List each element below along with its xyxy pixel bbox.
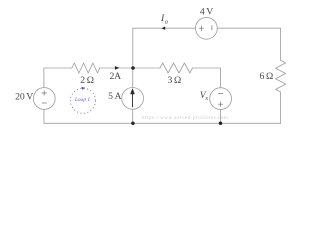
svg-text:Loop 1: Loop 1 bbox=[74, 98, 90, 103]
node A: junction dot at center node bbox=[131, 66, 135, 70]
wire: left vertical from bottom wire to 20V source minus terminal bbox=[43, 109, 45, 123]
wire: center node to 3-ohm resistor bbox=[133, 67, 160, 69]
svg-text:5 A: 5 A bbox=[108, 91, 121, 102]
svg-text:Ia: Ia bbox=[160, 13, 168, 26]
wire: bottom wire bbox=[44, 122, 281, 124]
wire: center node down to 5A source top terminal bbox=[132, 68, 134, 88]
wire: top wire from corner to 4V source left terminal bbox=[133, 27, 196, 29]
wire: 3-ohm resistor to corner above Vx source bbox=[193, 67, 221, 69]
loop marker Loop 1 dashed circle bbox=[70, 88, 95, 113]
polarity minus of Vx source (top) bbox=[218, 92, 223, 94]
wire: 5A source bottom terminal to bottom wire bbox=[132, 109, 134, 123]
current source I1 5A circle bbox=[122, 88, 144, 110]
svg-text:3 Ω: 3 Ω bbox=[167, 75, 181, 86]
voltage source U2 4V circle bbox=[196, 17, 218, 39]
node B: junction dot where 5A branch meets bottom wire bbox=[131, 122, 135, 126]
wire: from 2-ohm resistor to center node bbox=[100, 67, 133, 69]
svg-text:20 V: 20 V bbox=[15, 92, 33, 103]
resistor R 2ohm zigzag bbox=[72, 63, 100, 73]
wire: right vertical upper segment bbox=[280, 28, 282, 60]
svg-text:2A: 2A bbox=[109, 71, 121, 82]
wire: 20V source plus terminal up to middle wire corner bbox=[43, 68, 45, 88]
current arrow Ia on top wire pointing left bbox=[162, 27, 166, 30]
polarity minus of 4V source (right, rotated vertical bar) bbox=[211, 25, 213, 30]
svg-text:6 Ω: 6 Ω bbox=[259, 71, 273, 82]
polarity plus of 4V source (left) bbox=[199, 26, 204, 31]
wire: 4V right terminal to top-right corner bbox=[217, 27, 280, 29]
wire: right vertical lower segment bbox=[280, 92, 282, 123]
wire: Vx source bottom terminal to bottom wire bbox=[220, 110, 222, 124]
node C: junction dot where Vx branch meets bottom wire bbox=[219, 122, 223, 126]
loop marker Loop 1 arrowhead at top bbox=[81, 87, 85, 90]
svg-text:2 Ω: 2 Ω bbox=[80, 75, 94, 86]
polarity plus of Vx source (bottom) bbox=[218, 102, 223, 107]
svg-text:4 V: 4 V bbox=[200, 7, 213, 18]
current arrow 2A on middle wire pointing right bbox=[115, 66, 119, 70]
wire: middle left horizontal from left branch corner to 2-ohm resistor bbox=[44, 67, 72, 69]
svg-text:Vx: Vx bbox=[200, 90, 209, 102]
resistor R 6ohm zigzag bbox=[276, 60, 286, 92]
wire: corner down to Vx source top terminal bbox=[220, 68, 222, 88]
voltage source U3 Vx circle bbox=[210, 88, 232, 110]
arrow inside 5A current source bbox=[131, 89, 135, 108]
wire: center node up to top-left corner bbox=[132, 28, 134, 68]
voltage source U1 20V circle bbox=[33, 88, 55, 110]
polarity plus of 20V source bbox=[42, 91, 47, 96]
resistor R 3ohm zigzag bbox=[160, 63, 193, 73]
svg-text:https://www.solved-problems.co: https://www.solved-problems.com bbox=[142, 115, 229, 121]
polarity minus of 20V source bbox=[42, 102, 47, 104]
